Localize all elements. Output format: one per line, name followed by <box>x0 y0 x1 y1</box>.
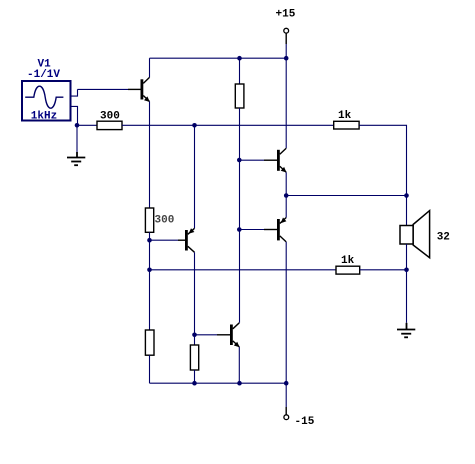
ground symbol right <box>397 323 415 338</box>
wire 1k to right rail corner <box>359 125 406 225</box>
svg-text:+15: +15 <box>276 8 296 20</box>
transistor Q2 PNP <box>178 228 195 252</box>
wire +15 terminal stem <box>285 33 287 44</box>
wire V1 plus to Q1 base <box>78 88 129 90</box>
resistor R1 300 horizontal <box>97 121 122 129</box>
svg-text:300: 300 <box>155 214 175 226</box>
voltage source V1 box <box>22 81 71 121</box>
V1 sine waveform symbol <box>25 86 63 108</box>
wire output to speaker <box>286 195 406 197</box>
svg-text:32: 32 <box>437 232 450 244</box>
wire 1k to right rail <box>360 269 407 271</box>
svg-text:-15: -15 <box>295 416 315 428</box>
speaker SP1 <box>400 211 430 258</box>
transistor Q5 NPN <box>217 323 240 348</box>
svg-text:1kHz: 1kHz <box>31 110 57 122</box>
node junction output <box>284 193 289 198</box>
transistor Q3 NPN <box>264 148 287 172</box>
wire Q5 emitter down to rail <box>238 347 240 383</box>
node junction rail / R5 <box>192 381 197 386</box>
wire feedback net y=270 <box>150 269 337 271</box>
ground symbol left <box>67 152 85 165</box>
terminal +15 <box>284 28 289 33</box>
transistor Q4 PNP <box>264 218 286 242</box>
svg-text:1k: 1k <box>338 110 352 122</box>
svg-text:1k: 1k <box>341 255 355 267</box>
node junction wire/Q2 emitter <box>192 123 197 128</box>
wire top rail <box>150 57 287 59</box>
wire bottom rail <box>150 382 287 384</box>
node junction top rail / +15 <box>284 56 289 61</box>
wire +15 rail down to Q3 collector <box>285 44 287 148</box>
wire Q4 base <box>239 229 264 231</box>
node junction left rail / feedback wire <box>147 268 152 273</box>
svg-text:300: 300 <box>100 111 120 123</box>
node junction Q2 base tap <box>147 238 152 243</box>
transistor Q1 NPN <box>128 77 150 102</box>
node junction speaker bottom / 1k / ground <box>404 268 409 273</box>
resistor R7 1k bottom <box>336 266 360 274</box>
wire middle rail top <box>239 58 241 84</box>
wire R6 bottom to bottom rail corner <box>149 355 151 383</box>
wire middle rail R3 to Q5 collector <box>239 108 241 323</box>
wire -15 stem <box>285 383 287 407</box>
node junction Q4 base tap <box>237 227 242 232</box>
resistor R2 300 vertical <box>145 208 153 232</box>
wire ground node down <box>406 270 408 323</box>
wire V1 plus terminal stub <box>71 89 78 96</box>
wire Q2 base <box>150 239 179 241</box>
node junction below V1 <box>75 123 80 128</box>
wire main net y=125 middle segment <box>122 124 334 126</box>
wire node to ground <box>76 125 78 152</box>
node junction Q5 base / R5 <box>192 333 197 338</box>
node junction bottom rail / Q5 emitter <box>237 381 242 386</box>
wire Q4 collector down to bottom rail <box>285 242 287 383</box>
wire Q2 collector down to Q5 base node <box>194 252 196 345</box>
wire Q4 emitter up to output node <box>285 196 287 218</box>
wire Q1 emitter down left rail to R2 <box>149 102 151 209</box>
wire V1 minus terminal stub down to node <box>71 106 78 125</box>
wire R2 bottom through Q2 base node down to lower resistor <box>149 232 151 330</box>
node junction Q3 base tap <box>237 158 242 163</box>
resistor R5 vertical bottom middle <box>190 345 198 370</box>
terminal -15 <box>284 415 289 420</box>
wire speaker bottom to ground node <box>406 244 408 270</box>
wire main input net y=125 left segment <box>77 124 97 126</box>
resistor R3 vertical top middle <box>235 84 244 108</box>
node junction top rail / middle rail <box>237 56 242 61</box>
wire Q3 base <box>239 159 264 161</box>
resistor R6 vertical bottom left <box>145 330 154 355</box>
node junction bottom rail / -15 <box>284 381 289 386</box>
resistor R4 1k top <box>334 121 359 129</box>
wire R5 bottom to rail <box>194 370 196 383</box>
node junction right rail / output <box>404 193 409 198</box>
wire Q2 emitter up to input net <box>194 125 196 228</box>
wire Q3 emitter down to output node <box>285 172 287 195</box>
wire Q5 base <box>195 334 218 336</box>
svg-text:-1/1V: -1/1V <box>27 69 60 81</box>
wire Q1 collector up to top rail <box>149 58 151 77</box>
